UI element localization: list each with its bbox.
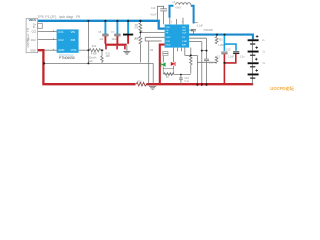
svg-text:C19: C19: [226, 49, 231, 52]
svg-text:1uF: 1uF: [89, 60, 94, 63]
svg-text:GND: GND: [58, 48, 64, 52]
svg-text:VDD: VDD: [166, 27, 171, 29]
svg-text:400: 400: [219, 38, 224, 41]
svg-text:2.2uF: 2.2uF: [228, 56, 235, 59]
svg-text:100mAh: 100mAh: [87, 56, 97, 59]
svg-text:+5V0: +5V0: [175, 7, 181, 10]
svg-text:UOCPD论坛: UOCPD论坛: [270, 85, 294, 92]
svg-text:D-: D-: [33, 26, 36, 29]
svg-text:2K: 2K: [166, 76, 169, 79]
svg-text:STAT: STAT: [182, 40, 188, 43]
svg-text:CC1: CC1: [32, 31, 37, 34]
svg-text:1.0u: 1.0u: [209, 61, 214, 64]
svg-text:TP5 P1 (2F) ipcb diagr P9: TP5 P1 (2F) ipcb diagr P9: [38, 15, 81, 19]
svg-text:C14: C14: [151, 7, 156, 10]
svg-text:0.1u: 0.1u: [184, 80, 189, 83]
svg-text:CMP: CMP: [166, 37, 171, 39]
svg-text:10K: 10K: [134, 27, 139, 30]
svg-text:GND: GND: [30, 49, 36, 52]
svg-text:1.5u: 1.5u: [240, 56, 245, 59]
svg-text:BAT: BAT: [182, 44, 187, 47]
svg-text:CC2: CC2: [58, 38, 64, 42]
svg-text:R13: R13: [92, 45, 97, 48]
svg-text:4.1uF: 4.1uF: [150, 13, 157, 16]
svg-text:OUT: OUT: [182, 33, 187, 35]
svg-text:20K: 20K: [106, 55, 111, 58]
svg-text:CC2: CC2: [31, 39, 36, 42]
svg-text:PS1800: PS1800: [204, 28, 214, 32]
svg-text:INB: INB: [71, 38, 76, 42]
svg-text:VIN: VIN: [71, 30, 76, 34]
svg-text:USB Type-C: USB Type-C: [27, 33, 30, 47]
svg-text:ILIM: ILIM: [166, 41, 170, 43]
svg-text:4.99K: 4.99K: [91, 52, 98, 55]
svg-text:0.1uF: 0.1uF: [197, 25, 204, 28]
svg-text:1uF: 1uF: [99, 38, 104, 41]
svg-text:R15: R15: [137, 80, 142, 83]
svg-text:CC1: CC1: [58, 30, 64, 34]
svg-text:VBUS: VBUS: [29, 18, 36, 22]
svg-text:22uF: 22uF: [112, 38, 118, 41]
svg-text:VOS: VOS: [71, 48, 77, 52]
svg-text:PTN04050: PTN04050: [59, 56, 75, 60]
svg-text:PG: PG: [182, 37, 185, 39]
svg-text:1.0M: 1.0M: [218, 44, 223, 47]
svg-text:GND: GND: [166, 45, 171, 47]
